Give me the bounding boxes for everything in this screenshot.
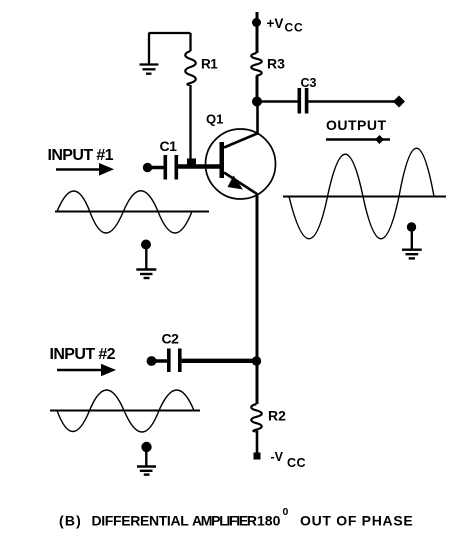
svg-text:R3: R3 <box>267 56 285 72</box>
svg-text:(B): (B) <box>59 513 82 529</box>
svg-text:AMPLIFIER: AMPLIFIER <box>192 513 257 529</box>
svg-text:C3: C3 <box>301 76 317 90</box>
svg-text:C1: C1 <box>160 138 178 154</box>
svg-text:CC: CC <box>287 456 306 470</box>
svg-text:OUTPUT: OUTPUT <box>326 117 387 133</box>
svg-text:CC: CC <box>285 21 304 35</box>
svg-text:INPUT #1: INPUT #1 <box>48 147 114 164</box>
svg-text:0: 0 <box>283 506 289 518</box>
svg-text:-V: -V <box>271 450 284 464</box>
svg-text:R1: R1 <box>201 57 218 72</box>
svg-text:OUT OF PHASE: OUT OF PHASE <box>300 513 413 529</box>
svg-text:Q1: Q1 <box>206 112 223 127</box>
svg-text:180: 180 <box>257 513 281 529</box>
svg-text:C2: C2 <box>162 331 180 347</box>
svg-text:DIFFERENTIAL: DIFFERENTIAL <box>92 513 190 529</box>
svg-text:INPUT #2: INPUT #2 <box>50 346 116 363</box>
svg-text:+V: +V <box>267 16 284 31</box>
svg-text:R2: R2 <box>268 408 286 424</box>
